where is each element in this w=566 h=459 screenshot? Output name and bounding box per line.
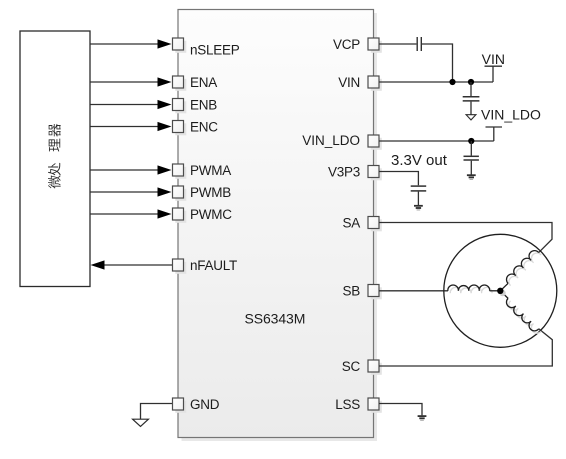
microprocessor box 微处理器 bbox=[20, 31, 90, 287]
pin PWMB bbox=[173, 186, 187, 201]
ground symbol (C2, open triangle) bbox=[466, 115, 476, 120]
wire nFAULT from U1 to microprocessor with left arrow bbox=[91, 260, 173, 269]
wire VCP to capacitor C1 bbox=[379, 43, 416, 45]
capacitor C2 (VIN bulk) bbox=[463, 82, 480, 115]
motor M1 stator circle bbox=[444, 234, 557, 347]
pin SC bbox=[368, 360, 382, 375]
wire nSLEEP from microprocessor with right arrow bbox=[90, 39, 172, 48]
pin label nFAULT bbox=[190, 258, 237, 273]
wire C1 to VIN node bbox=[422, 44, 453, 82]
pin label SA bbox=[342, 216, 360, 231]
pin label ENC bbox=[190, 120, 218, 135]
value label 3.3V out bbox=[391, 152, 448, 169]
ground symbol (LSS, earth bars) bbox=[418, 415, 427, 420]
wire ENA from microprocessor with right arrow bbox=[90, 77, 172, 86]
pin label SB bbox=[342, 284, 360, 299]
pin label PWMA bbox=[190, 163, 231, 178]
svg-text:SB: SB bbox=[342, 284, 360, 299]
pin label V3P3 bbox=[328, 165, 360, 180]
inductor winding B (SB phase) bbox=[448, 285, 500, 293]
pin VIN bbox=[368, 76, 382, 91]
pin ENC bbox=[173, 121, 187, 136]
wire SC to motor winding C bbox=[379, 329, 552, 366]
svg-text:PWMB: PWMB bbox=[190, 185, 231, 200]
svg-text:3.3V out: 3.3V out bbox=[391, 152, 448, 169]
IC U1 SS6343M drop shadow bbox=[182, 13, 378, 441]
pin V3P3 bbox=[368, 166, 382, 181]
wire VIN_LDO bbox=[379, 140, 494, 142]
ground symbol (C4, earth bars) bbox=[414, 205, 423, 211]
pin label VCP bbox=[333, 37, 360, 52]
pin SA bbox=[368, 217, 382, 232]
svg-text:V3P3: V3P3 bbox=[328, 165, 360, 180]
inductor winding A (SA phase) bbox=[500, 251, 541, 291]
junction VIN/C2 bbox=[468, 79, 474, 85]
net flag VIN bbox=[482, 51, 505, 82]
wire V3P3 to capacitor C4 bbox=[379, 172, 418, 186]
pin label nSLEEP bbox=[190, 43, 240, 58]
pin label VIN bbox=[338, 75, 360, 90]
pin label ENA bbox=[190, 75, 217, 90]
junction motor star point bbox=[497, 288, 506, 297]
capacitor C1 (series, VCP) bbox=[417, 37, 421, 51]
pin label GND bbox=[190, 397, 220, 412]
pin SB bbox=[368, 285, 382, 300]
ground symbol (C3, earth bars) bbox=[467, 174, 476, 179]
svg-text:PWMA: PWMA bbox=[190, 163, 231, 178]
svg-text:GND: GND bbox=[190, 397, 220, 412]
ground symbol (GND, open triangle) bbox=[133, 419, 149, 426]
pin label LSS bbox=[335, 397, 360, 412]
svg-text:nSLEEP: nSLEEP bbox=[190, 43, 240, 58]
svg-text:ENB: ENB bbox=[190, 98, 217, 113]
inductor winding C (SC phase) bbox=[500, 291, 541, 333]
wire SA to motor winding A bbox=[379, 223, 552, 253]
wire PWMB from microprocessor with right arrow bbox=[90, 187, 172, 196]
pin label PWMB bbox=[190, 185, 231, 200]
pin ENB bbox=[173, 99, 187, 114]
pin LSS bbox=[368, 398, 382, 413]
wire ENB from microprocessor with right arrow bbox=[90, 100, 172, 109]
svg-text:ENC: ENC bbox=[190, 120, 218, 135]
wire VIN bbox=[379, 81, 493, 83]
wire LSS to ground bbox=[379, 404, 422, 416]
svg-text:ENA: ENA bbox=[190, 75, 217, 90]
svg-text:VIN: VIN bbox=[482, 51, 505, 67]
wire SB to motor winding B bbox=[379, 290, 448, 292]
pin label PWMC bbox=[190, 207, 232, 222]
wire PWMC from microprocessor with right arrow bbox=[90, 209, 172, 218]
svg-text:LSS: LSS bbox=[335, 397, 360, 412]
capacitor C4 (V3P3) bbox=[411, 186, 427, 205]
junction VIN/C1 bbox=[449, 79, 455, 85]
svg-text:SC: SC bbox=[342, 359, 361, 374]
pin VIN_LDO bbox=[368, 135, 382, 150]
IC U1 SS6343M body bbox=[178, 10, 374, 438]
svg-text:PWMC: PWMC bbox=[190, 207, 232, 222]
pin VCP bbox=[368, 38, 382, 53]
pin label ENB bbox=[190, 98, 217, 113]
svg-text:nFAULT: nFAULT bbox=[190, 258, 237, 273]
wire PWMA from microprocessor with right arrow bbox=[90, 165, 172, 174]
svg-text:VCP: VCP bbox=[333, 37, 360, 52]
pin PWMC bbox=[173, 208, 187, 223]
svg-text:SS6343M: SS6343M bbox=[245, 311, 306, 327]
pin label SC bbox=[342, 359, 361, 374]
svg-text:SA: SA bbox=[342, 216, 360, 231]
svg-text:VIN_LDO: VIN_LDO bbox=[302, 133, 360, 148]
svg-text:VIN_LDO: VIN_LDO bbox=[481, 106, 541, 122]
capacitor C3 (VIN_LDO) bbox=[464, 141, 479, 175]
pin GND bbox=[173, 398, 187, 413]
svg-text:VIN: VIN bbox=[338, 75, 360, 90]
junction VIN_LDO/C3 bbox=[468, 138, 474, 144]
pin nSLEEP bbox=[173, 38, 187, 53]
pin ENA bbox=[173, 76, 187, 91]
pin nFAULT bbox=[173, 259, 187, 274]
wire GND to ground bbox=[141, 404, 173, 420]
net flag VIN_LDO bbox=[481, 106, 541, 141]
pin PWMA bbox=[173, 164, 187, 179]
pin label VIN_LDO bbox=[302, 133, 360, 148]
wire ENC from microprocessor with right arrow bbox=[90, 122, 172, 131]
